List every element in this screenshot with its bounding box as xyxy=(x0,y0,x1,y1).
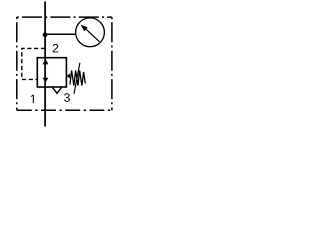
pressure gauge circle xyxy=(76,18,105,47)
enclosure dash-dot border right xyxy=(111,17,113,110)
pilot dashed line xyxy=(22,48,45,79)
vent triangle port 3 xyxy=(52,87,61,93)
enclosure dash-dot border top xyxy=(17,16,112,18)
spring zigzag xyxy=(70,71,85,86)
label port 3 xyxy=(64,93,70,102)
wire main vertical line (port 2 top to port 1 bottom) xyxy=(44,2,46,127)
node junction dot xyxy=(43,32,48,37)
label port 1 xyxy=(31,95,34,103)
valve square body xyxy=(37,58,66,87)
up arrowhead inside valve xyxy=(43,59,49,65)
enclosure dash-dot border bottom xyxy=(17,109,112,111)
gauge needle xyxy=(84,27,100,42)
spring adjustment arrow xyxy=(74,63,80,94)
enclosure dash-dot border left xyxy=(16,17,18,110)
label port 2 xyxy=(53,44,59,53)
spring seat arrowhead at valve edge xyxy=(67,73,70,79)
down arrowhead inside valve xyxy=(43,78,49,83)
gauge needle arrowhead xyxy=(81,25,88,32)
wire gauge branch xyxy=(45,33,76,35)
